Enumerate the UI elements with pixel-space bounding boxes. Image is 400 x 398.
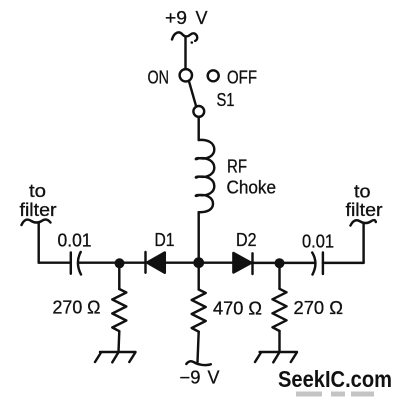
label filter (left) bbox=[20, 200, 57, 220]
label D2 bbox=[236, 230, 257, 250]
svg-text:270 Ω: 270 Ω bbox=[294, 298, 344, 318]
svg-text:D1: D1 bbox=[155, 230, 175, 250]
ground left bbox=[95, 352, 136, 362]
ground right bbox=[255, 352, 297, 362]
watermark SeekIC.com bbox=[278, 366, 392, 392]
svg-text:to: to bbox=[29, 181, 46, 201]
label 0.01 left bbox=[58, 231, 92, 251]
svg-text:0.01: 0.01 bbox=[58, 231, 92, 251]
wire switch to choke bbox=[197, 117, 199, 140]
svg-text:to: to bbox=[354, 182, 371, 202]
svg-text:S1: S1 bbox=[217, 90, 235, 110]
resistor 470 bbox=[192, 290, 206, 332]
svg-text:V: V bbox=[208, 368, 220, 388]
switch S1 pole bbox=[193, 106, 204, 117]
label ON bbox=[148, 68, 170, 88]
svg-text:+9: +9 bbox=[165, 8, 187, 28]
main horizontal wire left bbox=[39, 261, 71, 263]
watermark faint second line bbox=[296, 392, 374, 397]
switch S1 OFF contact bbox=[208, 70, 219, 81]
wire choke to center node bbox=[197, 212, 199, 259]
switch S1 arm bbox=[189, 81, 196, 107]
label +9 V bbox=[165, 8, 208, 28]
stray dot bbox=[191, 41, 194, 44]
resistor 270 left bbox=[112, 289, 126, 331]
label OFF bbox=[227, 68, 257, 88]
label 0.01 right bbox=[302, 232, 334, 252]
diode D1 bbox=[146, 252, 165, 273]
node dot left bbox=[115, 258, 125, 268]
wire cap to D1 bbox=[79, 261, 145, 263]
label 470 ohm bbox=[213, 299, 262, 319]
diode D2 bbox=[233, 253, 252, 274]
svg-text:SeekIC.com: SeekIC.com bbox=[278, 366, 392, 392]
wire right terminal down bbox=[362, 224, 364, 263]
wire left node down bbox=[118, 263, 120, 289]
svg-text:RF: RF bbox=[227, 157, 247, 177]
label to (left) bbox=[29, 181, 46, 201]
label 270 ohm left bbox=[53, 298, 101, 318]
wire left terminal down bbox=[37, 223, 39, 263]
svg-text:OFF: OFF bbox=[227, 68, 257, 88]
svg-text:ON: ON bbox=[148, 68, 170, 88]
svg-text:filter: filter bbox=[346, 200, 383, 220]
wire +9V to switch bbox=[184, 37, 186, 69]
svg-text:470 Ω: 470 Ω bbox=[213, 299, 262, 319]
label to (right) bbox=[354, 182, 371, 202]
capacitor 0.01 left bbox=[71, 252, 81, 275]
node dot right bbox=[275, 258, 285, 268]
svg-text:filter: filter bbox=[20, 200, 57, 220]
wire resistor to ground right bbox=[278, 331, 280, 352]
terminal squiggle -9V bbox=[186, 361, 211, 365]
inductor RF choke bbox=[196, 140, 215, 212]
label S1 bbox=[217, 90, 235, 110]
svg-text:270 Ω: 270 Ω bbox=[53, 298, 101, 318]
label filter (right) bbox=[346, 200, 383, 220]
label RF bbox=[227, 157, 247, 177]
wire cap to right terminal bbox=[323, 262, 364, 264]
svg-text:0.01: 0.01 bbox=[302, 232, 334, 252]
label -9 V bbox=[180, 368, 220, 388]
resistor 270 right bbox=[273, 289, 287, 331]
wire right node down bbox=[278, 263, 280, 289]
label 270 ohm right bbox=[294, 298, 344, 318]
svg-text:−9: −9 bbox=[180, 368, 201, 388]
svg-text:Choke: Choke bbox=[227, 178, 277, 198]
switch S1 ON contact bbox=[180, 69, 192, 81]
wire center node down bbox=[197, 263, 199, 290]
terminal squiggle left bbox=[22, 219, 51, 225]
svg-text:D2: D2 bbox=[236, 230, 257, 250]
terminal squiggle right bbox=[351, 220, 376, 225]
svg-text:V: V bbox=[196, 8, 208, 28]
terminal squiggle +9V bbox=[172, 32, 197, 40]
wire D1 to center node bbox=[165, 261, 232, 263]
capacitor 0.01 right bbox=[312, 253, 323, 275]
node dot center bbox=[193, 257, 204, 268]
wire resistor to ground left bbox=[117, 331, 120, 352]
wire D2 to right node bbox=[253, 262, 316, 264]
label Choke bbox=[227, 178, 277, 198]
label D1 bbox=[155, 230, 175, 250]
wire resistor to -9V terminal bbox=[198, 332, 199, 362]
